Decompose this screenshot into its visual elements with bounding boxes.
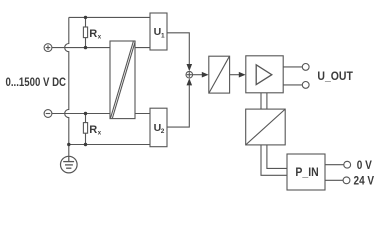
svg-text:24 V: 24 V (354, 173, 375, 187)
svg-text:R: R (89, 124, 97, 136)
svg-text:1: 1 (161, 32, 165, 39)
svg-text:R: R (89, 28, 97, 40)
svg-text:0 V: 0 V (357, 158, 372, 172)
svg-text:0...1500 V DC: 0...1500 V DC (6, 75, 67, 89)
svg-text:U_OUT: U_OUT (317, 69, 353, 83)
svg-text:2: 2 (161, 128, 165, 135)
svg-text:P_IN: P_IN (295, 165, 318, 179)
